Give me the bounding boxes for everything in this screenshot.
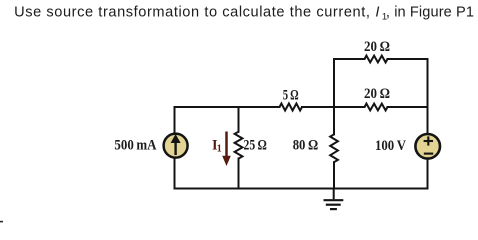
svg-text:20 Ω: 20 Ω xyxy=(364,39,390,55)
svg-text:100 V: 100 V xyxy=(375,138,407,154)
svg-text:80 Ω: 80 Ω xyxy=(293,138,319,154)
svg-text:1: 1 xyxy=(217,144,222,155)
svg-text:5 Ω: 5 Ω xyxy=(283,88,299,104)
svg-text:, in Figure P1: , in Figure P1 xyxy=(386,5,474,21)
svg-text:20 Ω: 20 Ω xyxy=(364,86,390,102)
svg-text:500 mA: 500 mA xyxy=(114,138,157,154)
svg-text:Use source transformation to c: Use source transformation to calculate t… xyxy=(14,5,370,21)
svg-text:I: I xyxy=(375,5,379,21)
svg-text:25 Ω: 25 Ω xyxy=(244,138,267,154)
